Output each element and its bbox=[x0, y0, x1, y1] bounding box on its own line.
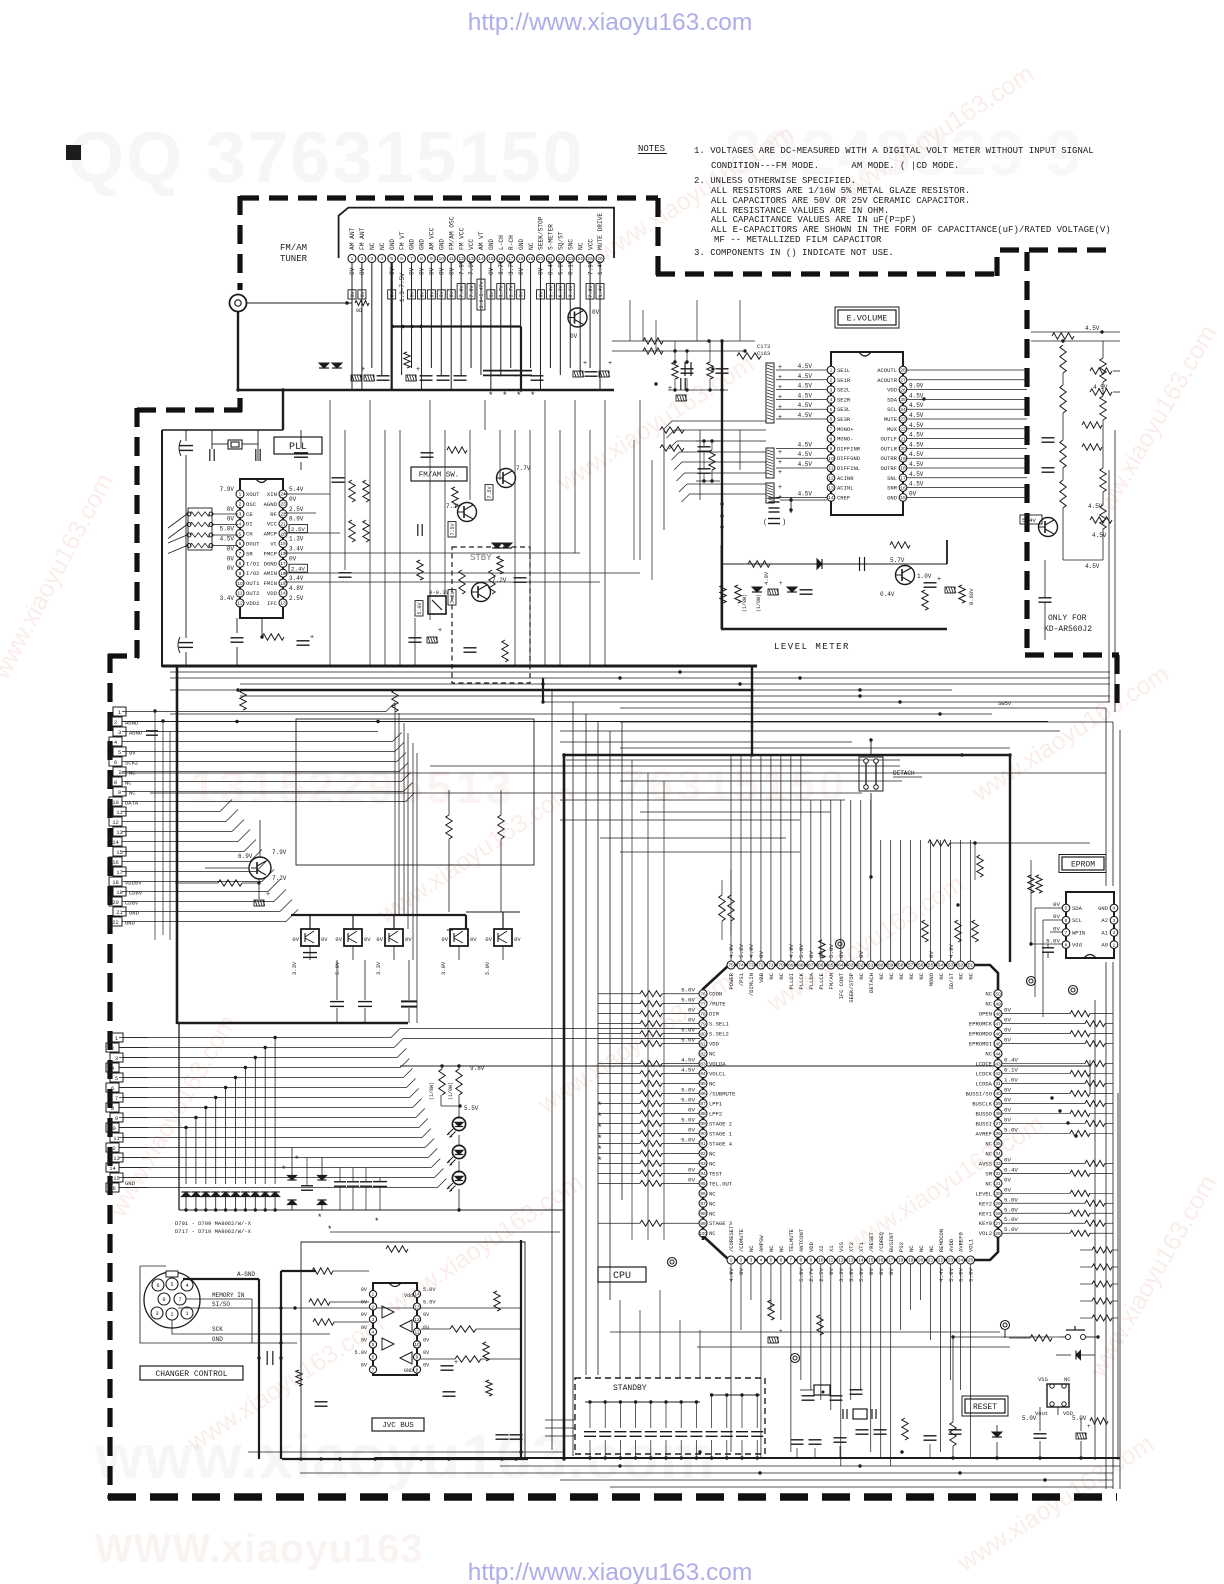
svg-text:+: + bbox=[778, 469, 782, 476]
JVC wires bottom bbox=[282, 1458, 528, 1460]
svg-text:D717 - D719 MA8062/W/-X: D717 - D719 MA8062/W/-X bbox=[175, 1228, 252, 1235]
svg-text:3.4V: 3.4V bbox=[220, 595, 235, 602]
svg-text:11: 11 bbox=[238, 591, 243, 597]
svg-text:BUSSI/SO: BUSSI/SO bbox=[966, 1091, 993, 1098]
svg-text:7: 7 bbox=[830, 427, 833, 433]
STBY parts bbox=[459, 570, 465, 594]
svg-text:GND: GND bbox=[389, 239, 396, 250]
svg-text:7.9V: 7.9V bbox=[220, 486, 235, 493]
svg-text:GND: GND bbox=[212, 1336, 223, 1343]
svg-text:7.2V: 7.2V bbox=[272, 875, 287, 882]
svg-text:24: 24 bbox=[900, 407, 906, 413]
svg-text:AVDD: AVDD bbox=[948, 1238, 955, 1252]
svg-text:http://www.xiaoyu163.com: http://www.xiaoyu163.com bbox=[468, 9, 753, 36]
svg-text:76: 76 bbox=[700, 991, 706, 997]
svg-text:GND: GND bbox=[419, 239, 426, 250]
svg-text:23: 23 bbox=[900, 417, 906, 423]
right edge vertical stubs bbox=[1089, 1060, 1091, 1093]
svg-text:5.0V: 5.0V bbox=[681, 997, 695, 1004]
trunk thick 752 bbox=[751, 667, 753, 756]
svg-text:FM/AM OSC: FM/AM OSC bbox=[448, 216, 455, 250]
EPROM wires bbox=[1035, 907, 1062, 909]
svg-text:5: 5 bbox=[390, 256, 393, 262]
svg-text:NC: NC bbox=[968, 972, 975, 979]
tuner area vertical wires bbox=[329, 400, 331, 666]
svg-text:4.5V: 4.5V bbox=[1092, 532, 1107, 539]
svg-text:AVREF: AVREF bbox=[975, 1130, 992, 1137]
svg-text:18: 18 bbox=[112, 879, 119, 886]
routing frame box bbox=[296, 719, 534, 865]
reset switch bbox=[1066, 1335, 1071, 1340]
svg-text:0.1V: 0.1V bbox=[567, 260, 574, 275]
svg-text:VOL2: VOL2 bbox=[979, 1230, 992, 1237]
svg-text:0V: 0V bbox=[364, 936, 371, 943]
svg-text:OUTLR: OUTLR bbox=[880, 445, 897, 452]
svg-text:99: 99 bbox=[700, 1221, 706, 1227]
svg-text:PS2: PS2 bbox=[898, 1242, 905, 1252]
svg-text:PLLCK: PLLCK bbox=[798, 972, 805, 989]
svg-text:0V: 0V bbox=[1004, 1037, 1011, 1044]
svg-text:25: 25 bbox=[968, 1258, 974, 1264]
thick vertical 521 bbox=[520, 1240, 522, 1459]
svg-text:+: + bbox=[778, 484, 782, 491]
svg-text:0V: 0V bbox=[423, 1312, 430, 1318]
svg-text:NC: NC bbox=[768, 972, 775, 979]
svg-text:NC: NC bbox=[748, 1245, 755, 1252]
svg-text:SEEK/STOP: SEEK/STOP bbox=[538, 216, 545, 250]
svg-text:86: 86 bbox=[700, 1091, 706, 1097]
svg-text:0V: 0V bbox=[429, 267, 436, 275]
svg-text:15: 15 bbox=[116, 849, 123, 856]
svg-text:68: 68 bbox=[798, 963, 804, 969]
svg-text:10: 10 bbox=[439, 256, 445, 262]
svg-text:7.9V: 7.9V bbox=[469, 285, 475, 297]
svg-text:7.9V: 7.9V bbox=[588, 285, 594, 297]
CPU bottom pin row bbox=[727, 1256, 735, 1264]
svg-text:0V: 0V bbox=[289, 555, 297, 562]
svg-text:11: 11 bbox=[116, 809, 123, 816]
svg-text:4.5V: 4.5V bbox=[798, 441, 813, 448]
svg-text:+: + bbox=[266, 891, 270, 898]
tuner top-left ledge bbox=[162, 429, 283, 431]
svg-text:0V: 0V bbox=[688, 1166, 695, 1173]
svg-text:(1/8W): (1/8W) bbox=[448, 1082, 454, 1100]
PLL caps right bbox=[294, 452, 308, 454]
svg-text:3: 3 bbox=[239, 512, 242, 518]
jvc wires mid bbox=[330, 1270, 334, 1272]
svg-text:33: 33 bbox=[995, 1161, 1001, 1167]
svg-text:EPROM: EPROM bbox=[1071, 860, 1095, 869]
svg-text:NC: NC bbox=[908, 1245, 915, 1252]
opto bus bbox=[291, 914, 466, 916]
svg-text:5.4V: 5.4V bbox=[1022, 517, 1036, 524]
svg-text:10: 10 bbox=[818, 1258, 824, 1264]
svg-text:STAGE 2: STAGE 2 bbox=[709, 1120, 732, 1127]
svg-text:4.8V: 4.8V bbox=[289, 585, 304, 592]
svg-text:SI/SO: SI/SO bbox=[212, 1301, 230, 1308]
svg-text:75: 75 bbox=[728, 963, 734, 969]
svg-text:3: 3 bbox=[115, 1055, 118, 1062]
svg-text:0V: 0V bbox=[1004, 1156, 1011, 1163]
svg-text:/MUTE: /MUTE bbox=[709, 1001, 726, 1008]
resistors above CPU bbox=[922, 920, 928, 942]
svg-text:GND: GND bbox=[129, 910, 140, 917]
svg-text:0V: 0V bbox=[1004, 1106, 1011, 1113]
svg-text:A2: A2 bbox=[1101, 917, 1108, 924]
svg-text:4.9V: 4.9V bbox=[948, 944, 955, 958]
svg-text:5.0V: 5.0V bbox=[1072, 1415, 1087, 1422]
svg-text:5.0V: 5.0V bbox=[417, 602, 423, 614]
svg-text:www.xiaoyu163.com: www.xiaoyu163.com bbox=[762, 869, 969, 1017]
svg-text:MF -- METALLIZED FILM CAPACITO: MF -- METALLIZED FILM CAPACITOR bbox=[714, 235, 882, 245]
svg-text:21: 21 bbox=[928, 1258, 934, 1264]
svg-text:5.0V: 5.0V bbox=[681, 1136, 695, 1143]
node circle near CPU bbox=[668, 1258, 677, 1267]
svg-text:XT2: XT2 bbox=[848, 1242, 855, 1252]
svg-text:5.0V: 5.0V bbox=[681, 1037, 695, 1044]
svg-text:5.7V: 5.7V bbox=[890, 557, 905, 564]
ground bus tuner bbox=[238, 389, 614, 392]
svg-text:SM: SM bbox=[985, 1170, 992, 1177]
svg-text:7.9V: 7.9V bbox=[458, 260, 465, 275]
svg-text:16: 16 bbox=[900, 485, 906, 491]
svg-text:2.5V: 2.5V bbox=[289, 506, 304, 513]
svg-text:DIFFINL: DIFFINL bbox=[837, 465, 860, 472]
svg-text:QQ 376315150: QQ 376315150 bbox=[68, 118, 584, 198]
svg-text:SEEK/STOP: SEEK/STOP bbox=[848, 973, 855, 1003]
svg-text:76315150: 76315150 bbox=[620, 761, 848, 810]
svg-text:SD/ST: SD/ST bbox=[948, 972, 955, 989]
svg-text:AM VT: AM VT bbox=[478, 231, 485, 250]
svg-text:22: 22 bbox=[938, 1258, 944, 1264]
svg-text:AVSS: AVSS bbox=[979, 1160, 993, 1167]
svg-text:R-CH: R-CH bbox=[508, 235, 515, 250]
svg-text:8: 8 bbox=[239, 561, 242, 567]
caps row bottom bbox=[301, 1185, 313, 1187]
svg-text:7: 7 bbox=[410, 256, 413, 262]
svg-text:63: 63 bbox=[848, 963, 854, 969]
diodes mid bbox=[492, 543, 502, 548]
level meter bus bbox=[721, 563, 947, 565]
left resistor bbox=[240, 690, 246, 710]
svg-text:5.0V: 5.0V bbox=[681, 1087, 695, 1094]
svg-text:1.3V: 1.3V bbox=[289, 536, 304, 543]
transistor Q2 bbox=[497, 469, 516, 488]
svg-text:www.xiaoyu163.com: www.xiaoyu163.com bbox=[103, 1010, 242, 1222]
svg-text:72: 72 bbox=[758, 963, 764, 969]
crystal X1 bbox=[228, 440, 242, 449]
svg-text:12: 12 bbox=[237, 601, 243, 607]
Q8 parts bbox=[218, 880, 242, 886]
svg-text:0.4V: 0.4V bbox=[880, 591, 895, 598]
svg-text:65: 65 bbox=[828, 963, 834, 969]
JVC circuit box bbox=[301, 1242, 525, 1457]
svg-text:5.0V: 5.0V bbox=[423, 1287, 436, 1293]
svg-text:5.0V: 5.0V bbox=[1046, 938, 1060, 945]
svg-text:74: 74 bbox=[738, 963, 744, 969]
svg-text:0V: 0V bbox=[485, 936, 492, 943]
svg-text:A-GND: A-GND bbox=[237, 1271, 255, 1278]
svg-text:SNL: SNL bbox=[887, 475, 897, 482]
tuner transistor Q1 bbox=[568, 308, 587, 327]
extra verticals left of CPU bbox=[631, 760, 633, 1240]
tuner pin row 1-26 bbox=[348, 255, 356, 263]
svg-text:5.0V: 5.0V bbox=[1022, 1415, 1037, 1422]
svg-text:+: + bbox=[779, 1329, 783, 1335]
EVOL input resistor arrays bbox=[766, 363, 774, 423]
svg-text:0V: 0V bbox=[448, 267, 455, 275]
svg-text:0V: 0V bbox=[758, 951, 765, 958]
CPU top pin drop wires bbox=[730, 755, 732, 961]
svg-text:+: + bbox=[778, 449, 782, 456]
svg-text:LCDCE: LCDCE bbox=[975, 1061, 992, 1068]
svg-text:4.5V: 4.5V bbox=[909, 451, 924, 458]
svg-text:4.5V: 4.5V bbox=[798, 383, 813, 390]
svg-text:13: 13 bbox=[280, 601, 286, 607]
svg-text:NC: NC bbox=[985, 1051, 992, 1058]
svg-text:NC: NC bbox=[709, 1051, 716, 1058]
svg-text:FM ANT: FM ANT bbox=[359, 227, 366, 250]
transistor Q7 bbox=[1039, 518, 1058, 537]
svg-text:SCL: SCL bbox=[887, 406, 897, 413]
svg-text:BUSCLK: BUSCLK bbox=[972, 1100, 993, 1107]
svg-text:4.5V: 4.5V bbox=[1085, 563, 1100, 570]
svg-text:10: 10 bbox=[112, 799, 119, 806]
svg-text:DIFFINR: DIFFINR bbox=[837, 445, 861, 452]
svg-text:www.xiaoyu163.com: www.xiaoyu163.com bbox=[1083, 320, 1222, 532]
svg-text:0V: 0V bbox=[688, 1007, 695, 1014]
svg-text:54: 54 bbox=[938, 963, 944, 969]
svg-text:SDA: SDA bbox=[887, 396, 898, 403]
dashed border step bbox=[137, 407, 242, 412]
thick bus 690 segment bbox=[240, 689, 752, 691]
svg-text:4.5V: 4.5V bbox=[798, 373, 813, 380]
wire tuner corner bbox=[282, 390, 284, 430]
svg-text:2. UNLESS OTHERWISE SPECIFIED.: 2. UNLESS OTHERWISE SPECIFIED. bbox=[694, 176, 856, 186]
vertical wires mid top bbox=[629, 300, 631, 341]
svg-text:MUX: MUX bbox=[887, 426, 898, 433]
svg-text:WWW.xiaoyu163: WWW.xiaoyu163 bbox=[95, 1527, 424, 1571]
tuner left wall bbox=[161, 430, 163, 667]
svg-text:84: 84 bbox=[700, 1071, 706, 1077]
svg-text:4: 4 bbox=[380, 256, 383, 262]
svg-text:NOTES: NOTES bbox=[638, 144, 665, 154]
svg-text:0V: 0V bbox=[441, 936, 448, 943]
svg-text:SE2R: SE2R bbox=[837, 396, 851, 403]
left connector J1 wires bbox=[122, 721, 1048, 723]
svg-text:+: + bbox=[361, 366, 365, 373]
svg-text:/CORESET: /CORESET bbox=[728, 1225, 735, 1252]
svg-text:ALL CAPACITANCE VALUES ARE IN: ALL CAPACITANCE VALUES ARE IN uF(P=pF) bbox=[711, 215, 916, 225]
svg-text:1: 1 bbox=[185, 1311, 188, 1317]
svg-text:NC: NC bbox=[888, 972, 895, 979]
svg-text:KEY0: KEY0 bbox=[979, 1220, 992, 1227]
svg-text:3.7V: 3.7V bbox=[499, 285, 505, 297]
svg-text:19: 19 bbox=[900, 456, 906, 462]
svg-text:IFC: IFC bbox=[267, 600, 278, 607]
evol out bus bbox=[907, 439, 1027, 441]
svg-text:C173: C173 bbox=[757, 343, 770, 350]
lm trans parts bbox=[924, 582, 937, 584]
svg-text:89: 89 bbox=[700, 1121, 706, 1127]
PLL top caps bbox=[209, 449, 211, 461]
svg-text:NC: NC bbox=[985, 991, 992, 998]
routing frame box2 bbox=[280, 700, 780, 880]
svg-text:0V: 0V bbox=[909, 490, 917, 497]
svg-text:GND: GND bbox=[1098, 905, 1109, 912]
svg-text:/RESET: /RESET bbox=[868, 1231, 875, 1252]
svg-text:77: 77 bbox=[700, 1001, 706, 1007]
bus jvc top bbox=[330, 1231, 560, 1233]
svg-text:LCDCK: LCDCK bbox=[975, 1071, 992, 1078]
svg-text:17: 17 bbox=[888, 1258, 894, 1264]
trunk right 1106 bbox=[1105, 708, 1107, 886]
svg-text:13: 13 bbox=[113, 1155, 120, 1162]
PLL label bbox=[274, 437, 322, 454]
svg-text:94: 94 bbox=[700, 1171, 706, 1177]
svg-text:2.5V: 2.5V bbox=[818, 1267, 825, 1281]
EPROM pins bbox=[1062, 904, 1070, 912]
antenna connector bbox=[230, 295, 247, 312]
svg-text:6: 6 bbox=[1065, 918, 1068, 924]
heavy wire A-GND bbox=[183, 1278, 259, 1280]
svg-text:2: 2 bbox=[1113, 930, 1116, 936]
svg-text:*: * bbox=[598, 1144, 602, 1154]
svg-text:2: 2 bbox=[114, 719, 117, 726]
svg-text:I/O1: I/O1 bbox=[246, 560, 260, 567]
svg-text:0V: 0V bbox=[361, 1287, 368, 1293]
svg-text:10: 10 bbox=[828, 456, 834, 462]
EVOL pins bbox=[827, 366, 835, 374]
CPU label bbox=[598, 1267, 646, 1282]
svg-text:NC: NC bbox=[985, 1001, 992, 1008]
svg-text:4.5V: 4.5V bbox=[909, 432, 924, 439]
xtal X2 bbox=[814, 1385, 830, 1395]
svg-text:2: 2 bbox=[830, 378, 833, 384]
svg-text:CE: CE bbox=[246, 511, 253, 518]
svg-text:5: 5 bbox=[118, 749, 121, 756]
svg-text:*: * bbox=[598, 1111, 602, 1121]
dashed border tuner top bbox=[240, 195, 658, 200]
svg-text:0V: 0V bbox=[292, 936, 299, 943]
svg-text:20: 20 bbox=[538, 256, 544, 262]
svg-text:7: 7 bbox=[115, 1095, 118, 1102]
svg-text:5.0V: 5.0V bbox=[1004, 1196, 1018, 1203]
svg-text:0V: 0V bbox=[1004, 1027, 1011, 1034]
svg-text:9: 9 bbox=[430, 256, 433, 262]
svg-text:ACOUTR: ACOUTR bbox=[877, 377, 898, 384]
svg-text:5: 5 bbox=[115, 1075, 118, 1082]
tuner pin voltage boxes bbox=[348, 290, 356, 299]
svg-text:4.5V: 4.5V bbox=[798, 402, 813, 409]
svg-text:0V: 0V bbox=[335, 936, 342, 943]
transistor Q5 box bbox=[428, 596, 446, 614]
transistor Q6 bbox=[896, 566, 915, 585]
svg-text:5.0V: 5.0V bbox=[798, 944, 805, 958]
svg-text:47: 47 bbox=[995, 1021, 1001, 1027]
svg-text:0.68V: 0.68V bbox=[968, 588, 975, 605]
CPU right fan bbox=[1070, 1011, 1090, 1017]
svg-text:85: 85 bbox=[700, 1081, 706, 1087]
svg-text:VBB: VBB bbox=[758, 972, 765, 983]
svg-text:3: 3 bbox=[1113, 918, 1116, 924]
svg-text:2: 2 bbox=[170, 1312, 173, 1318]
svg-text:1: 1 bbox=[830, 368, 833, 374]
svg-text:51: 51 bbox=[968, 963, 974, 969]
svg-text:EPROMCK: EPROMCK bbox=[969, 1021, 993, 1028]
svg-text:4.5V: 4.5V bbox=[681, 1067, 695, 1074]
svg-text:0V: 0V bbox=[405, 936, 412, 943]
svg-text:4.5V: 4.5V bbox=[909, 402, 924, 409]
CPU left fan resistors bbox=[640, 991, 662, 997]
svg-text:KEY2: KEY2 bbox=[979, 1200, 992, 1207]
svg-text:SCL: SCL bbox=[1072, 917, 1082, 924]
svg-text:0V: 0V bbox=[438, 267, 445, 275]
STANDBY caps bbox=[585, 1401, 700, 1403]
wires to standby bbox=[545, 1419, 575, 1421]
svg-text:AM ANT: AM ANT bbox=[349, 227, 356, 250]
svg-text:CDON: CDON bbox=[709, 991, 722, 998]
svg-text:ALL RESISTORS ARE 1/16W 5% MET: ALL RESISTORS ARE 1/16W 5% METAL GLAZE R… bbox=[711, 186, 970, 196]
svg-text:5: 5 bbox=[372, 1342, 375, 1348]
svg-text:OUT2: OUT2 bbox=[246, 590, 259, 597]
svg-text:25: 25 bbox=[900, 397, 906, 403]
svg-text:17: 17 bbox=[900, 476, 906, 482]
svg-text:1: 1 bbox=[372, 1292, 375, 1298]
svg-text:1: 1 bbox=[115, 1035, 119, 1042]
svg-text:12: 12 bbox=[828, 476, 834, 482]
svg-text:5.2V: 5.2V bbox=[738, 944, 745, 958]
svg-text:34: 34 bbox=[995, 1151, 1001, 1157]
svg-text:41: 41 bbox=[995, 1081, 1001, 1087]
svg-text:9: 9 bbox=[118, 789, 121, 796]
svg-text:5.0V: 5.0V bbox=[681, 1096, 695, 1103]
lm resistor1 bbox=[748, 561, 770, 567]
svg-text:52: 52 bbox=[958, 963, 964, 969]
svg-text:91: 91 bbox=[700, 1141, 706, 1147]
svg-text:DIM: DIM bbox=[709, 1011, 719, 1018]
svg-text:6: 6 bbox=[400, 256, 403, 262]
svg-text:3.0V: 3.0V bbox=[848, 1267, 855, 1281]
svg-text:2.4V: 2.4V bbox=[291, 566, 305, 573]
svg-text:66: 66 bbox=[818, 963, 824, 969]
svg-text:4.9V: 4.9V bbox=[748, 944, 755, 958]
svg-text:7: 7 bbox=[372, 1367, 375, 1373]
svg-text:*: * bbox=[318, 1212, 322, 1222]
svg-text:12: 12 bbox=[112, 819, 119, 826]
svg-text:46: 46 bbox=[995, 1031, 1001, 1037]
svg-text:LCDDA: LCDDA bbox=[975, 1081, 992, 1088]
svg-text:21: 21 bbox=[116, 909, 123, 916]
dashed border tuner left upper bbox=[237, 196, 242, 290]
trunk 622 bbox=[621, 722, 623, 1200]
svg-text:5.0V: 5.0V bbox=[558, 260, 565, 275]
svg-text:SR: SR bbox=[246, 550, 253, 557]
svg-text:0V: 0V bbox=[409, 267, 416, 275]
svg-text:/SUBMUTE: /SUBMUTE bbox=[709, 1091, 736, 1098]
svg-text:0V: 0V bbox=[1004, 1176, 1011, 1183]
svg-text:C163: C163 bbox=[757, 350, 770, 357]
svg-text:VDD5V: VDD5V bbox=[125, 880, 142, 887]
svg-text:0V: 0V bbox=[376, 936, 383, 943]
svg-text:7: 7 bbox=[118, 769, 121, 776]
DIN wires bbox=[186, 1298, 252, 1300]
svg-text:24: 24 bbox=[577, 256, 583, 262]
dashed border bottom bbox=[108, 1493, 1117, 1501]
svg-text:4.5V: 4.5V bbox=[798, 392, 813, 399]
svg-text:43: 43 bbox=[995, 1061, 1001, 1067]
mid caps bbox=[339, 572, 352, 574]
